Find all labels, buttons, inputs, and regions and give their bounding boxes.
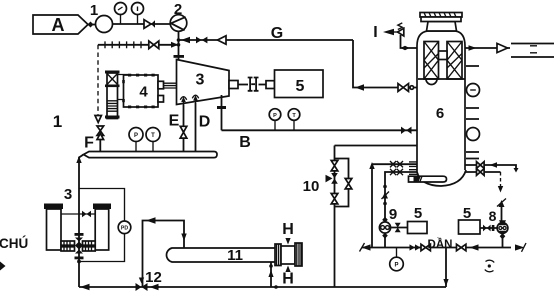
vessel left drain upper	[372, 163, 418, 165]
svg-text:12: 12	[145, 269, 162, 286]
pack connector	[439, 51, 448, 60]
cooler flange left	[275, 244, 281, 266]
svg-text:CHÚ: CHÚ	[0, 236, 28, 251]
filter changeover valves	[75, 233, 84, 236]
cooler 11 body	[166, 248, 277, 262]
svg-text:1: 1	[90, 2, 98, 19]
pump 9 discharge valve	[391, 227, 407, 229]
svg-text:P: P	[273, 113, 277, 119]
gauge P top	[120, 15, 122, 24]
left edge artifact	[0, 262, 6, 271]
line G	[179, 39, 354, 41]
level control station 10	[335, 146, 436, 161]
vessel top flange	[420, 13, 462, 18]
vessel right outlet upper	[466, 165, 517, 171]
wire A to strainer 1	[88, 24, 96, 26]
svg-text:DẦN: DẦN	[428, 238, 453, 251]
PD loop	[79, 189, 125, 222]
gauge P drain	[396, 248, 398, 258]
wire strainer to pump	[113, 23, 171, 25]
pump 8	[499, 220, 506, 223]
demister pack left	[424, 42, 439, 80]
gauge PD	[118, 221, 131, 234]
svg-text:3: 3	[64, 186, 72, 203]
svg-text:1: 1	[53, 112, 62, 131]
svg-text:5: 5	[296, 78, 305, 95]
cooler outlet drop	[270, 262, 272, 287]
cooler head	[281, 246, 295, 264]
gauge T top	[137, 15, 139, 24]
valve line B at vessel	[401, 127, 406, 134]
level gauge taps	[466, 66, 479, 159]
collector bowl	[426, 79, 437, 85]
valve on vessel inlet G	[398, 84, 403, 92]
svg-text:PD: PD	[121, 226, 128, 232]
line D	[195, 103, 197, 152]
vent valve F	[97, 126, 104, 131]
svg-text:8: 8	[489, 208, 497, 224]
gauge T line B	[293, 120, 295, 130]
demister pack right	[447, 42, 462, 80]
turbine output stub	[229, 81, 238, 89]
svg-text:11: 11	[227, 247, 243, 264]
line E	[183, 105, 185, 152]
gauge T drain	[485, 260, 494, 272]
gauge T header	[152, 142, 154, 152]
svg-text:A: A	[52, 15, 65, 35]
filter left	[44, 204, 63, 210]
bottom return line	[79, 286, 446, 288]
strainer 1	[96, 16, 113, 33]
pump 9	[382, 217, 388, 223]
svg-text:F: F	[84, 135, 94, 152]
svg-text:9: 9	[389, 206, 397, 223]
pump discharge drop	[178, 31, 180, 60]
line B	[222, 129, 418, 131]
heater 5 left	[408, 222, 428, 234]
svg-text:G: G	[271, 25, 283, 42]
svg-text:5: 5	[414, 205, 422, 222]
valve 12	[136, 283, 142, 291]
svg-text:4: 4	[139, 84, 148, 101]
svg-text:P: P	[134, 133, 138, 139]
heater 5 right	[459, 220, 481, 234]
gauge P header	[135, 142, 137, 152]
drain elbow to cooler 11	[143, 221, 185, 288]
drain header DAN	[362, 247, 511, 249]
svg-text:T: T	[151, 133, 155, 139]
turbine exhaust drop	[221, 95, 223, 130]
svg-text:2: 2	[174, 1, 182, 18]
turbine 3	[177, 60, 230, 105]
ribbed crossover pipes	[61, 241, 75, 245]
linkage hooks	[118, 75, 128, 105]
left riser from header	[79, 155, 84, 288]
svg-text:I: I	[373, 24, 377, 41]
vapour outlet right	[465, 47, 510, 49]
vessel bottom dish	[417, 170, 466, 186]
svg-text:P: P	[394, 263, 398, 269]
gearbox output stubs	[158, 81, 164, 89]
check valve top line	[144, 20, 151, 29]
svg-text:H: H	[282, 221, 294, 238]
filter right	[93, 204, 111, 210]
generator input stub	[266, 81, 275, 89]
vent duct right edge	[511, 44, 554, 58]
vessel right outlet lower	[466, 171, 501, 173]
bypass valve	[149, 41, 154, 49]
pump 2	[170, 15, 187, 32]
svg-text:E: E	[169, 113, 180, 130]
svg-text:B: B	[239, 134, 251, 151]
svg-text:3: 3	[196, 72, 205, 89]
svg-text:10: 10	[303, 178, 320, 195]
shaft gearbox-turbine	[164, 83, 177, 88]
svg-text:D: D	[199, 114, 211, 131]
vessel bottom heater tube	[409, 176, 447, 182]
cooler flange right	[295, 243, 302, 266]
impulse dashed line to F	[97, 45, 99, 115]
support tray line	[418, 78, 465, 80]
line G drop to vessel	[353, 40, 418, 88]
generator 5	[275, 70, 324, 98]
coupling	[248, 78, 259, 91]
governor bypass line	[98, 44, 178, 46]
svg-text:5: 5	[463, 205, 471, 222]
transfer valve top	[61, 213, 95, 215]
gauge P line B	[274, 120, 276, 130]
tag A supply flag	[33, 15, 88, 34]
drain arrows E D inside turbine	[184, 98, 196, 105]
vessel 6 shell	[417, 31, 465, 172]
gear unit column	[107, 73, 118, 119]
vessel top neck	[427, 22, 457, 32]
svg-text:6: 6	[436, 105, 444, 122]
oil header manifold	[84, 152, 218, 158]
gearbox 4	[124, 75, 159, 107]
vessel left drain lower to pump 9	[385, 172, 418, 221]
svg-text:H: H	[282, 271, 294, 288]
check valve pump 8	[497, 199, 506, 207]
drain drop to return line	[445, 248, 447, 288]
flange turbine inlet	[174, 55, 185, 58]
